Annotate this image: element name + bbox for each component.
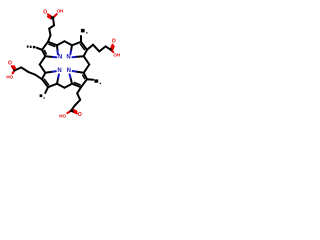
BR ring bond N-CaR (blue end) [76,72,84,73]
svg-text:OH: OH [57,8,64,13]
bond meso-right to Ca TR [84,56,90,64]
top chain bond ring-c1 [48,35,51,42]
right chain bond c1-c2 [93,45,99,52]
bottom chain bond c1-c2 [77,93,80,100]
bond meso-left to Ca TL [40,56,46,64]
right acid C-OH bond [111,50,112,51]
top chain bond c3-acidC [53,18,54,26]
top chain bond c1-c2 [49,29,50,36]
top acid C=O double bond [50,16,53,18]
bond meso-top to Ca TL [57,41,65,45]
BL ring bond CbL-CaL [42,73,45,79]
methyl bond TR [80,36,82,42]
bond meso-bottom to Ca BL [57,84,65,88]
bottom chain bond c3-acidC [71,106,75,111]
TL ring double bond CaT=CbT [48,42,57,46]
svg-text:O: O [112,39,116,45]
methyl label CH3 TR [81,29,85,33]
top acid C-OH bond [53,16,55,18]
svg-text:O: O [8,60,12,66]
methyl label CH3 BR [94,79,98,82]
methyl label H3C TL [27,45,29,47]
TR ring bond N-CaR (blue end) [76,55,84,58]
bond meso-left to Ca BL [40,65,46,73]
svg-text:OH: OH [113,53,120,58]
svg-text:N: N [58,55,62,61]
svg-text:N: N [67,68,71,74]
left chain bond c2-c3 [21,67,28,72]
bottom chain bond c2-c3 [75,100,80,106]
porphyrin molecule structure diagram [0,0,130,130]
svg-text:O: O [43,10,47,16]
bond meso-top to Ca TR [65,41,73,45]
TL ring bond N-CaL (blue end) [45,55,53,58]
BL ring double bond CbB=CbL [42,79,48,87]
left acid C-OH bond [14,71,15,72]
TR ring bond CbR-CaR [84,50,87,56]
left chain bond c1-c2 [28,72,35,75]
BL ring bond CaB-CbB [48,84,57,88]
right chain bond c2-c3 [99,46,105,51]
TR ring bond CaT-CbT [72,42,81,46]
BR ring double bond CaB=CbB [72,84,81,88]
right chain bond c3-acidC [106,46,111,49]
BR ring bond N-CaB (blue end) [71,78,73,84]
TL ring bond CbT-CbL [42,42,48,50]
methyl bond BR [87,78,93,81]
left chain bond ring-c1 [35,75,42,80]
svg-text:HO: HO [59,114,66,119]
bottom acid C=O double bond [71,111,74,113]
bond meso-right to Ca BR [84,65,90,73]
right acid C=O double bond [110,47,113,49]
methyl bond TL [37,48,42,50]
methyl bond BL [45,87,48,93]
right chain bond ring-c1 [87,45,93,50]
BR ring double bond CbR=CaR [84,73,87,79]
svg-text:O: O [78,112,82,118]
BL ring bond N-CaB (blue end) [57,78,58,84]
bond meso-bottom to Ca BR [65,84,73,88]
TL ring double bond CbL=CaL [42,50,45,56]
BL ring bond N-CaL (blue end) [45,72,52,73]
left chain bond c3-acidC [15,67,22,70]
svg-text:HO: HO [6,75,13,80]
top chain bond c2-c3 [49,25,54,28]
bottom chain bond ring-c1 [77,87,81,93]
TR ring bond N-CaT (blue end) [71,45,72,51]
BR ring bond CbB-CbR [81,79,87,87]
svg-text:N: N [57,68,61,74]
methyl label H3C BL [40,94,43,97]
left acid C=O double bond [13,69,14,71]
TR ring double bond CbT=CbR [81,42,87,50]
svg-text:N: N [66,54,70,60]
bottom acid C-OH bond [69,111,71,112]
TL ring bond N-CaT (blue end) [56,45,59,50]
